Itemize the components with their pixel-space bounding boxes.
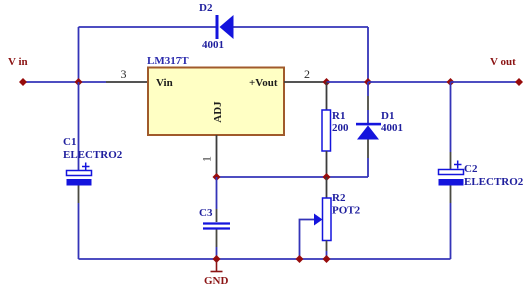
capacitor C2 (electrolytic) xyxy=(439,170,464,186)
node: R2 bottom junction xyxy=(323,255,331,263)
wire: pin 3 (black) into LM317 box xyxy=(106,81,148,83)
node: junction at R1 top xyxy=(323,78,331,86)
svg-text:1: 1 xyxy=(200,156,214,162)
svg-text:4001: 4001 xyxy=(381,122,403,134)
op-amp U1: LM317T regulator box xyxy=(148,68,284,136)
diode D2 xyxy=(216,15,234,39)
capacitor C1 (electrolytic) xyxy=(67,171,92,186)
wire: C1 bottom pin stub (dark) xyxy=(78,186,80,204)
wire: riser from top rail down to Vout rail xyxy=(367,27,369,82)
svg-text:R2: R2 xyxy=(332,192,346,204)
wire: C3 top pin stub (dark) xyxy=(216,209,218,222)
svg-text:GND: GND xyxy=(204,275,229,287)
ground symbol xyxy=(211,259,223,272)
node: input junction xyxy=(75,78,83,86)
wire: Vout rail R1 junction to D1 junction xyxy=(327,81,369,83)
svg-text:D2: D2 xyxy=(199,2,213,14)
wire: bottom rail xyxy=(79,258,451,260)
potentiometer R2 xyxy=(323,177,332,259)
svg-text:C1: C1 xyxy=(63,136,76,148)
svg-text:V out: V out xyxy=(490,56,516,68)
node: wiper junction on bottom rail xyxy=(296,255,304,263)
svg-text:POT2: POT2 xyxy=(332,205,361,217)
node: ADJ junction xyxy=(213,173,221,181)
wiper arrow of R2 xyxy=(300,214,323,260)
svg-text:R1: R1 xyxy=(332,110,345,122)
resistor R1 xyxy=(322,82,331,177)
diode D1 xyxy=(356,82,381,177)
node: junction at C2 top xyxy=(447,78,455,86)
wire: C1 bottom to bottom rail xyxy=(78,203,80,259)
wire: C2 bottom to bottom rail xyxy=(450,203,452,259)
plus mark C2 xyxy=(454,161,462,169)
wire: pin 2 (black) from box to junction xyxy=(284,81,327,83)
wire: top rail right of D2 xyxy=(234,26,369,28)
wire: Vout rail D1 junction to C2 junction xyxy=(368,81,451,83)
wire: top rail left of D2 xyxy=(79,26,217,28)
svg-text:V in: V in xyxy=(8,56,28,68)
wire: C2 bottom pin stub (dark) xyxy=(450,186,452,204)
capacitor C3 xyxy=(203,224,230,229)
svg-text:ELECTRO2: ELECTRO2 xyxy=(63,149,123,161)
svg-text:2: 2 xyxy=(304,67,310,81)
node: junction R1 bottom / R2 top xyxy=(323,173,331,181)
wire: input rail from Vin terminal to junction xyxy=(23,81,79,83)
wire: C3 bottom pin stub (dark) xyxy=(216,230,218,248)
wire: adjust rail from ADJ junction to D1 bottom xyxy=(217,176,369,178)
wire: C2 riser from Vout rail down to C2 xyxy=(450,82,452,152)
svg-text:LM317T: LM317T xyxy=(147,55,189,67)
wire: ADJ pin (black) from box to junction xyxy=(216,135,218,177)
plus mark C1 xyxy=(82,163,90,171)
wire: C1 riser from input junction down to C1 xyxy=(78,82,80,171)
svg-text:Vin: Vin xyxy=(156,77,173,89)
wire: riser from input junction up to D2 top rail xyxy=(78,27,80,82)
wire: Vout rail to output terminal xyxy=(451,81,520,83)
svg-text:C2: C2 xyxy=(464,163,478,175)
svg-text:D1: D1 xyxy=(381,110,394,122)
svg-text:+Vout: +Vout xyxy=(249,77,278,89)
svg-text:200: 200 xyxy=(332,122,349,134)
node: junction at D1 top xyxy=(364,78,372,86)
terminal node V out xyxy=(515,78,523,86)
wire: C3 riser from ADJ junction down xyxy=(216,177,218,209)
svg-text:ADJ: ADJ xyxy=(212,101,224,123)
svg-text:C3: C3 xyxy=(199,207,213,219)
svg-text:4001: 4001 xyxy=(202,39,224,51)
svg-text:ELECTRO2: ELECTRO2 xyxy=(464,176,524,188)
node: GND junction xyxy=(213,255,221,263)
svg-text:3: 3 xyxy=(121,67,127,81)
wire: C3 bottom to bottom rail xyxy=(216,247,218,259)
wire: C2 top pin stub (dark) xyxy=(450,152,452,169)
terminal node V in xyxy=(19,78,27,86)
wire: input rail junction to pin 3 stub xyxy=(79,81,107,83)
